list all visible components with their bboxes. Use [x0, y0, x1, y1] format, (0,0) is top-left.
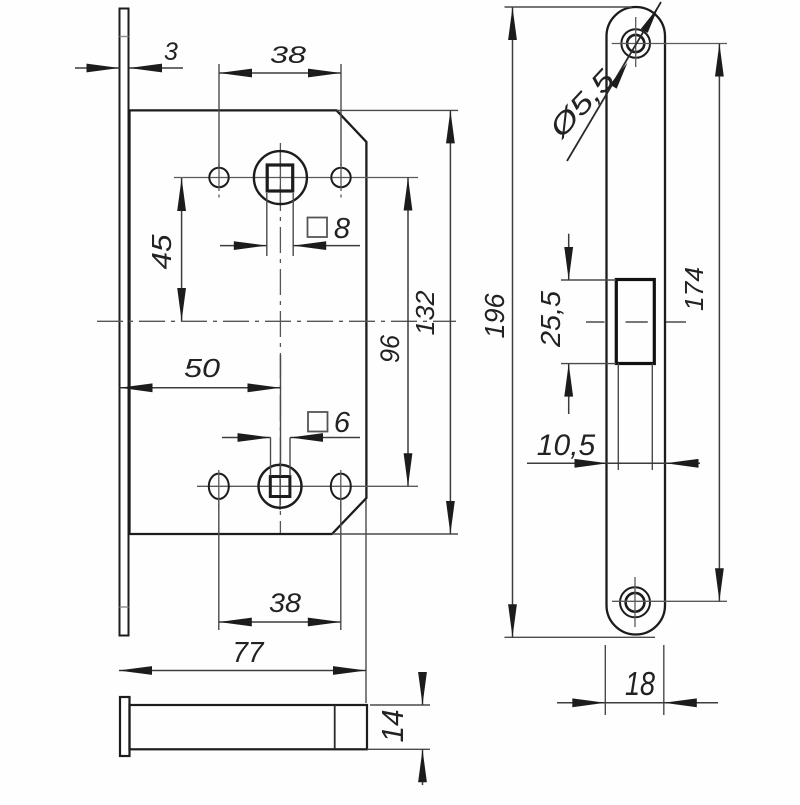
- dimension 18: [604, 645, 606, 715]
- lower square spindle hole 6mm: [270, 477, 290, 497]
- dimension 45: [181, 178, 183, 321]
- svg-text:3: 3: [164, 38, 178, 66]
- upper spindle hole centerline solid segment: [279, 150, 281, 206]
- bottom view: body: [130, 705, 368, 749]
- square symbol for 6: [308, 412, 328, 432]
- svg-text:25,5: 25,5: [535, 291, 566, 348]
- faceplate front view (stadium outline): [607, 7, 666, 635]
- dimension 174: [718, 44, 720, 602]
- svg-text:18: 18: [625, 665, 656, 702]
- upper square spindle hole 8mm: [267, 165, 293, 191]
- svg-text:10,5: 10,5: [537, 429, 596, 462]
- upper right screw hole: [331, 168, 350, 187]
- bottom view: chamfer projection line: [334, 705, 336, 749]
- dimension 77: [365, 500, 367, 703]
- svg-text:50: 50: [184, 353, 221, 383]
- svg-text:96: 96: [375, 334, 405, 363]
- svg-text:6: 6: [334, 407, 351, 439]
- dimension 3 (strip thickness): [75, 67, 120, 69]
- lower left oval hole: [209, 474, 229, 499]
- top screw hole: [621, 29, 650, 58]
- svg-text:196: 196: [479, 293, 510, 338]
- lower spindle hole circle: [259, 465, 302, 508]
- dimension 8 (square): [220, 245, 267, 247]
- dimension 38 (top): [218, 64, 220, 167]
- dimension 25,5: [561, 279, 616, 281]
- lock body outline: [130, 110, 367, 534]
- square symbol for 8: [308, 218, 328, 238]
- svg-text:174: 174: [679, 267, 709, 311]
- upper hole row centerline: [174, 177, 418, 179]
- dimension 14: [370, 704, 430, 706]
- horizontal body centerline (dashed): [97, 320, 456, 322]
- lower right oval hole: [331, 474, 351, 499]
- dimension 38 (bottom): [218, 500, 220, 630]
- svg-text:77: 77: [233, 637, 266, 669]
- dimension 50: [280, 355, 282, 476]
- svg-text:45: 45: [146, 234, 177, 269]
- dimension 96: [407, 178, 409, 487]
- svg-text:38: 38: [270, 42, 307, 69]
- svg-text:132: 132: [410, 290, 440, 336]
- vertical centerline through spindle holes: [279, 143, 281, 533]
- svg-text:Ø5,5: Ø5,5: [543, 63, 622, 144]
- magnetic latch block: [616, 280, 654, 364]
- upper left screw hole: [209, 168, 228, 187]
- faceplate edge strip (side view, left): [120, 9, 129, 636]
- extension lines from 8mm square: [266, 193, 268, 256]
- strip tangent tick bottom: [120, 606, 129, 608]
- dimension 10,5: [617, 364, 619, 471]
- extension lines from 6mm square: [270, 438, 272, 477]
- lower spindle hole centerline solid segment: [279, 462, 281, 510]
- dimension 196: [505, 6, 633, 8]
- dimension 132: [337, 109, 458, 111]
- lower hole row centerline: [197, 485, 418, 487]
- bottom view: faceplate end cap: [120, 697, 130, 756]
- upper spindle hole circle: [254, 151, 307, 204]
- strip tangent tick top: [120, 36, 129, 38]
- bottom screw hole: [620, 587, 650, 617]
- dimension 6 (square): [222, 437, 271, 439]
- diameter 5,5 leader line: [567, 2, 661, 161]
- svg-text:38: 38: [269, 588, 301, 618]
- svg-text:14: 14: [375, 710, 410, 743]
- latch centerline segments: [586, 321, 605, 323]
- svg-text:8: 8: [334, 213, 350, 245]
